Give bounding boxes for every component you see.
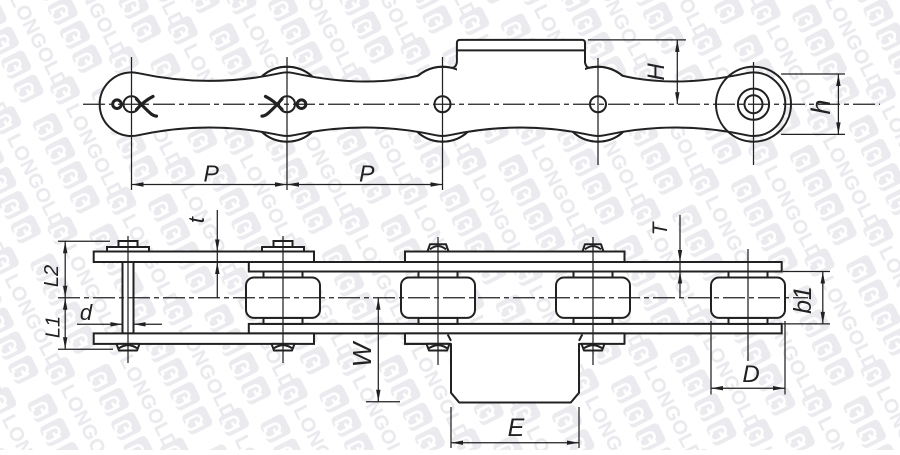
svg-text:h: h bbox=[806, 99, 836, 114]
svg-text:W: W bbox=[347, 340, 377, 367]
svg-text:d: d bbox=[80, 300, 93, 325]
svg-text:L2: L2 bbox=[41, 265, 63, 287]
svg-text:H: H bbox=[643, 63, 670, 81]
svg-text:L1: L1 bbox=[43, 316, 65, 338]
svg-text:t: t bbox=[184, 216, 209, 223]
svg-text:E: E bbox=[508, 414, 525, 442]
svg-text:b1: b1 bbox=[789, 286, 817, 314]
svg-text:P: P bbox=[359, 161, 375, 187]
svg-text:T: T bbox=[649, 220, 672, 235]
svg-text:D: D bbox=[742, 361, 759, 388]
svg-text:P: P bbox=[204, 161, 220, 187]
